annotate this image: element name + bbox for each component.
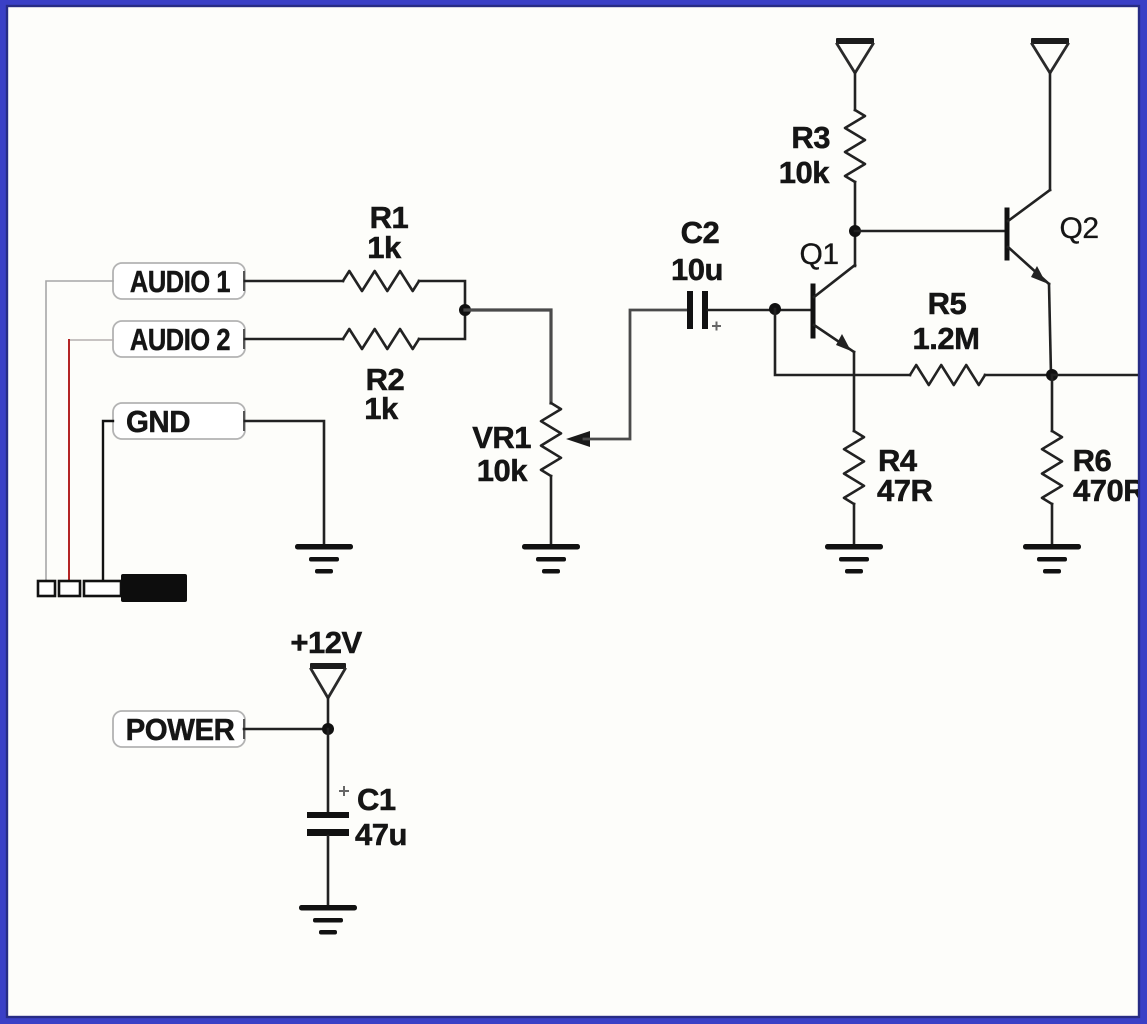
audio jack plug	[38, 574, 187, 602]
wire node C to Q2 base	[855, 230, 1005, 233]
wire node B down to R5 rail	[775, 309, 910, 375]
wire Q2 collector to supply	[1049, 73, 1052, 190]
svg-text:1.2M: 1.2M	[913, 321, 980, 356]
node E (power)	[322, 723, 334, 735]
power arrow +12V	[310, 663, 346, 669]
wire Q1 collector to node C	[854, 231, 857, 266]
wire R5 to node D	[985, 374, 1052, 377]
svg-text:+12V: +12V	[290, 625, 362, 660]
svg-text:C2: C2	[681, 215, 720, 250]
ground (GND)	[295, 544, 353, 550]
svg-text:AUDIO 2: AUDIO 2	[130, 323, 230, 358]
svg-text:AUDIO 1: AUDIO 1	[130, 265, 230, 300]
resistor R1 1k	[343, 271, 419, 291]
svg-text:Q1: Q1	[799, 238, 838, 271]
svg-text:R3: R3	[791, 120, 830, 155]
svg-text:POWER: POWER	[126, 713, 235, 747]
svg-text:VR1: VR1	[472, 420, 531, 455]
resistor R5 1.2M	[910, 365, 985, 385]
wire C1 to ground	[327, 836, 330, 905]
svg-text:R5: R5	[928, 286, 967, 321]
svg-text:10k: 10k	[477, 453, 528, 488]
ground (VR1)	[522, 544, 580, 550]
svg-text:GND: GND	[126, 405, 190, 439]
C1 polarity mark	[340, 787, 348, 795]
wire R4 to ground	[853, 504, 856, 544]
power arrow +V (Q2)	[1031, 38, 1069, 44]
resistor R4 47R	[844, 431, 864, 504]
wire VR1 to ground	[550, 476, 553, 544]
wire jack ring to AUDIO2 (red)	[69, 339, 113, 341]
svg-text:10k: 10k	[779, 155, 830, 190]
connector GND	[113, 403, 245, 439]
wire R3 to node C	[854, 182, 857, 231]
resistor R6 470R	[1042, 431, 1062, 504]
wire Q2 emitter to node D	[1049, 284, 1051, 375]
node D (output)	[1046, 369, 1058, 381]
wire node E to C1	[327, 729, 330, 812]
wire node D to right edge	[1052, 374, 1147, 377]
wire node D to R6	[1051, 375, 1054, 431]
ground (R4)	[825, 544, 883, 550]
transistor Q1	[813, 265, 855, 352]
svg-text:47u: 47u	[355, 817, 407, 852]
node C (Q1 collector / Q2 base)	[849, 225, 861, 237]
wire jack tip to AUDIO1 (grey)	[46, 281, 113, 581]
VR1 wiper arrow	[566, 431, 590, 447]
node B (Q1 base)	[769, 303, 781, 315]
wire R2 to node A	[419, 310, 465, 339]
wire VR1 wiper to C2	[584, 310, 687, 439]
wire R1 to node A	[419, 281, 465, 310]
wire POWER to node E	[244, 728, 328, 731]
wire R6 to ground	[1051, 504, 1054, 544]
wire GND to ground	[245, 421, 324, 544]
wire jack sleeve to GND (black)	[103, 421, 113, 581]
connector AUDIO 1	[113, 263, 245, 299]
capacitor C1 47u	[307, 812, 349, 818]
resistor R3 10k	[845, 110, 865, 182]
ground (R6)	[1023, 544, 1081, 550]
wire node A to VR1 top	[465, 310, 551, 403]
svg-text:47R: 47R	[877, 473, 932, 508]
svg-text:1k: 1k	[364, 391, 399, 426]
svg-text:1k: 1k	[367, 230, 402, 265]
wire AUDIO2 to R2	[245, 338, 343, 341]
wire +12V arrow to node E	[327, 698, 330, 729]
svg-text:10u: 10u	[671, 252, 723, 287]
wire Q1 emitter down to R4	[853, 352, 856, 431]
transistor Q2	[1007, 190, 1050, 284]
ground (C1)	[299, 905, 357, 911]
wire AUDIO1 to R1	[245, 280, 343, 283]
connector AUDIO 2	[113, 321, 245, 357]
power arrow +V (R3)	[836, 38, 874, 44]
svg-text:Q2: Q2	[1059, 212, 1098, 245]
svg-text:470R: 470R	[1073, 473, 1145, 508]
wire C2 to Q1 base node	[708, 309, 811, 312]
resistor R2 1k	[343, 329, 419, 349]
wire supply to R3	[854, 73, 857, 110]
node A (mix junction)	[459, 304, 471, 316]
capacitor C2 10u	[687, 291, 693, 329]
potentiometer VR1 10k	[541, 403, 561, 476]
C2 polarity mark	[713, 323, 720, 330]
connector POWER	[113, 711, 245, 747]
svg-text:C1: C1	[357, 782, 396, 817]
